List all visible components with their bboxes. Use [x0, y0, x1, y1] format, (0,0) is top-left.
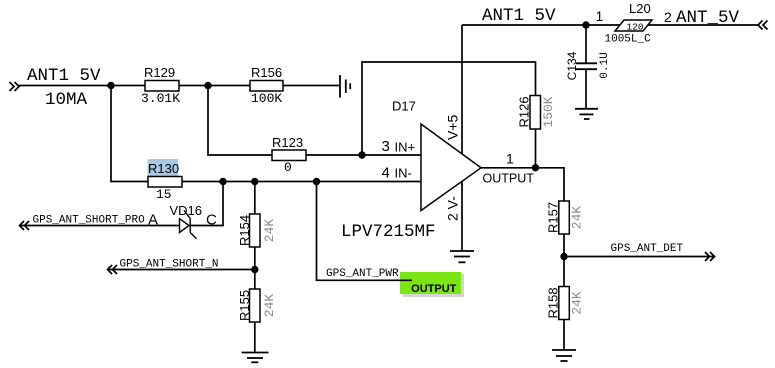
wire: GPS_ANT_DET: [564, 256, 714, 258]
wire: R155 to ground: [254, 322, 256, 353]
wire: R129 to R156: [179, 85, 250, 87]
svg-text:C134: C134: [565, 51, 579, 80]
wire: GPS_ANT_SHORT_PRO to diode: [20, 225, 180, 227]
svg-text:24K: 24K: [262, 294, 277, 318]
svg-text:R130: R130: [148, 161, 179, 176]
svg-text:IN+: IN+: [395, 140, 416, 155]
ground under op-amp: [450, 251, 474, 262]
svg-text:24K: 24K: [570, 291, 585, 315]
ground under R155: [242, 353, 269, 363]
svg-text:OUTPUT: OUTPUT: [483, 172, 535, 186]
svg-text:3: 3: [382, 138, 390, 155]
node: R154 top junction: [251, 178, 258, 185]
svg-text:ANT1 5V: ANT1 5V: [482, 6, 556, 26]
port arrow GPS_ANT_SHORT_PRO: [20, 221, 30, 230]
wire: L20 to port: [648, 24, 758, 26]
svg-text:R155: R155: [237, 290, 252, 321]
svg-text:2 V-: 2 V-: [445, 196, 461, 221]
node: junction IN+: [358, 151, 365, 158]
resistor R126: [530, 96, 541, 130]
svg-text:1005L_C: 1005L_C: [605, 34, 652, 46]
svg-text:LPV7215MF: LPV7215MF: [341, 222, 436, 242]
resistor R123: [272, 150, 306, 161]
ground under C134: [575, 109, 598, 119]
node: diode junction: [219, 178, 226, 185]
svg-text:2: 2: [664, 9, 672, 25]
wire: diode cathode up to IN- row: [190, 182, 223, 226]
node: junction R129/R156/R123: [204, 82, 211, 89]
wire: R126 to output node: [535, 129, 537, 168]
wire: det junction to R158: [563, 257, 565, 287]
svg-text:ANT1 5V: ANT1 5V: [27, 66, 101, 86]
svg-text:150K: 150K: [541, 96, 556, 127]
svg-text:4: 4: [382, 165, 390, 182]
wire: R123 to IN+: [306, 154, 421, 156]
inductor L20: [615, 20, 652, 31]
wire: output to R157: [481, 168, 564, 201]
svg-text:GPS_ANT_DET: GPS_ANT_DET: [611, 243, 684, 255]
wire: junction down to R123: [208, 86, 272, 156]
svg-text:A: A: [148, 212, 158, 229]
resistor R154: [250, 214, 261, 247]
wire: R156 to ground: [283, 85, 340, 87]
output net badge: [400, 272, 464, 297]
node: C134 junction: [582, 21, 589, 28]
svg-text:ANT_5V: ANT_5V: [676, 8, 740, 28]
svg-text:R156: R156: [251, 65, 282, 80]
wire: junction to R155: [254, 270, 256, 290]
ground (sideways) at R156: [340, 75, 350, 98]
wire: ANT1 5V feed to R129: [19, 85, 145, 87]
svg-text:V+5: V+5: [445, 114, 461, 140]
node: output junction: [532, 164, 539, 171]
svg-text:OUTPUT: OUTPUT: [411, 283, 457, 295]
node: junction at x111 on feed: [107, 82, 114, 89]
resistor R155: [250, 289, 261, 322]
wire: ANT1 5V top rail: [462, 24, 620, 26]
svg-text:100K: 100K: [251, 91, 282, 106]
svg-text:L20: L20: [629, 1, 651, 16]
op-amp D17: [421, 124, 481, 211]
ground under R158: [552, 350, 576, 361]
resistor R130 highlighted: [148, 159, 183, 187]
svg-text:R158: R158: [546, 287, 561, 318]
resistor R158: [559, 287, 570, 320]
svg-text:10MA: 10MA: [45, 90, 88, 110]
svg-text:1: 1: [596, 8, 604, 24]
svg-text:15: 15: [156, 187, 172, 202]
svg-text:0.1U: 0.1U: [599, 52, 611, 78]
svg-text:R157: R157: [546, 202, 561, 233]
node: SHORT_N junction: [251, 266, 258, 273]
port arrow GPS_ANT_SHORT_N: [108, 265, 118, 274]
node: GPS_ANT_PWR junction: [313, 178, 320, 185]
resistor R157: [559, 201, 570, 234]
wire: V+ pin: [461, 25, 463, 154]
svg-text:VD16: VD16: [170, 203, 203, 218]
resistor R129: [145, 81, 179, 92]
svg-text:IN-: IN-: [395, 166, 412, 181]
svg-text:GPS_ANT_PWR: GPS_ANT_PWR: [326, 268, 399, 280]
wire: R154 branch: [254, 182, 256, 215]
svg-text:24K: 24K: [262, 219, 277, 243]
node: GPS_ANT_DET junction: [560, 253, 567, 260]
svg-text:3.01K: 3.01K: [141, 91, 180, 106]
svg-text:R126: R126: [517, 96, 532, 127]
wire: IN+ node up and across to R126: [362, 62, 536, 155]
svg-text:1: 1: [506, 151, 514, 167]
svg-text:R129: R129: [144, 65, 175, 80]
port arrow GPS_ANT_DET: [705, 252, 715, 261]
wire: GPS_ANT_SHORT_N: [108, 269, 255, 271]
port arrow ANT_5V: [758, 21, 768, 30]
port arrow ANT1 5V left: [10, 82, 20, 91]
svg-text:R123: R123: [272, 135, 303, 150]
wire: junction down to R130 row: [111, 86, 148, 182]
svg-text:D17: D17: [392, 99, 416, 114]
svg-text:R154: R154: [237, 215, 252, 246]
svg-text:GPS_ANT_SHORT_N: GPS_ANT_SHORT_N: [120, 259, 219, 271]
wire: IN- row R130 to op-amp: [182, 181, 421, 183]
wire: R157 to det junction: [563, 234, 565, 257]
svg-text:GPS_ANT_SHORT_PRO: GPS_ANT_SHORT_PRO: [33, 215, 146, 227]
svg-text:24K: 24K: [570, 206, 585, 230]
wire: R154 to junction: [254, 247, 256, 270]
resistor R156: [250, 81, 283, 92]
capacitor C134: [576, 25, 597, 109]
wire: R158 to ground: [563, 320, 565, 351]
wire: GPS_ANT_PWR branch: [317, 182, 413, 281]
wire: V- pin to ground: [461, 181, 463, 251]
svg-text:0: 0: [284, 160, 292, 175]
svg-text:C: C: [206, 212, 217, 229]
svg-text:120: 120: [627, 22, 644, 33]
diode VD16: [180, 211, 197, 239]
